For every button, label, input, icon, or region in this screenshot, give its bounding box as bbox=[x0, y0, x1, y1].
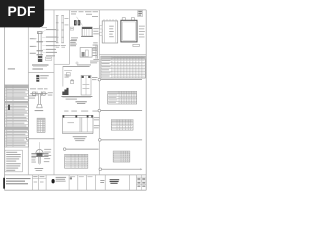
table: schedule (middle bottom) bbox=[65, 154, 88, 168]
detail title line (column B lower) bbox=[26, 138, 54, 141]
detail title line 4 with arrow (right column bottom) bbox=[99, 168, 142, 171]
title block vertical separators bbox=[32, 175, 136, 190]
detail: wall cleanout w/ hatched blocks (column D top) bbox=[70, 11, 98, 30]
revision bar bbox=[3, 178, 5, 189]
column divider C (partial) bbox=[69, 10, 71, 64]
sheet frame border bbox=[5, 10, 147, 190]
section divider above fixture table bbox=[99, 53, 146, 55]
detail: grease trap plan (right column, right) bbox=[121, 18, 145, 47]
sheet number cells bbox=[137, 175, 147, 190]
page background bbox=[0, 0, 149, 198]
svg-text:PDF: PDF bbox=[7, 4, 35, 19]
detail: elevated water tank platform (middle lower) bbox=[61, 66, 97, 99]
detail: cleanout riser (column B top) bbox=[30, 26, 57, 69]
detail: floor drain (column B bottom) bbox=[31, 142, 51, 171]
general notes box bbox=[5, 150, 23, 172]
table: pipe sizing schedule (right column) bbox=[111, 120, 133, 131]
detail title text (septic tank) bbox=[76, 101, 87, 104]
project name text bbox=[6, 178, 31, 184]
column divider D bbox=[98, 10, 100, 175]
table: small schedule (column B) bbox=[37, 118, 45, 132]
date / scale cells bbox=[32, 177, 46, 179]
detail: backflow preventer assembly (column B middle) bbox=[29, 75, 53, 111]
title block top line bbox=[5, 174, 147, 176]
table: fixture unit schedule (right column) bbox=[101, 56, 145, 78]
detail: twin pipe risers (column C top) bbox=[55, 15, 69, 47]
detail: storage tank section (column D) bbox=[71, 27, 99, 40]
column divider A bbox=[27, 10, 29, 175]
detail title line (column C/D) bbox=[63, 64, 91, 66]
legend table bbox=[5, 85, 29, 147]
engineer name text bbox=[56, 177, 67, 182]
legend label bbox=[8, 68, 15, 69]
sheet stamp (top right corner) bbox=[138, 11, 143, 17]
section divider column B bbox=[28, 72, 54, 74]
owner cell text bbox=[100, 179, 104, 182]
table: vent sizing schedule (right column) bbox=[113, 151, 130, 162]
approval cells bbox=[70, 175, 75, 178]
title block bbox=[3, 175, 146, 190]
PDF badge bbox=[0, 0, 44, 27]
detail title line 3 (right column) bbox=[99, 139, 143, 142]
detail title line (middle bottom) bbox=[63, 148, 98, 151]
signature cell mark bbox=[70, 177, 72, 179]
detail: septic tank section bbox=[62, 111, 100, 141]
detail: catch basin plan (right column, left) bbox=[100, 19, 118, 43]
column divider B bbox=[53, 10, 55, 175]
sheet title text bbox=[110, 179, 120, 184]
section divider column C bbox=[54, 63, 70, 65]
table: water demand schedule (right column) bbox=[108, 91, 137, 104]
detail title line 2 (right column) bbox=[98, 109, 142, 112]
detail: pump tank w/ discharge pipe (column D lower) bbox=[70, 40, 99, 64]
seal dot bbox=[52, 179, 55, 183]
detail title line 1 (right column) bbox=[98, 78, 142, 81]
